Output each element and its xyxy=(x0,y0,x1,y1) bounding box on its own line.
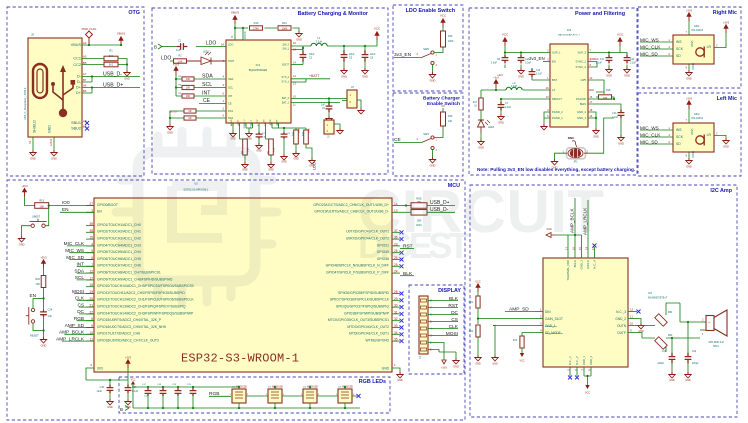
ground JP1 xyxy=(551,159,557,165)
wire SUP_2 SYNC right xyxy=(588,46,620,67)
IC3 amplifier MAX98357 xyxy=(543,258,628,367)
wire LED D4 vdd gnd xyxy=(344,387,346,408)
svg-text:WS2812B: WS2812B xyxy=(236,385,247,388)
svg-text:LR: LR xyxy=(707,45,712,49)
wire LED D2 vdd gnd xyxy=(274,387,276,408)
svg-text:J5: J5 xyxy=(31,33,34,37)
svg-text:STAT: STAT xyxy=(228,59,235,63)
wire switch bottom to gnd xyxy=(432,65,434,72)
svg-text:VCC: VCC xyxy=(374,26,381,30)
svg-text:LED1: LED1 xyxy=(203,51,210,54)
wire LED D3 vdd gnd xyxy=(309,387,311,408)
svg-text:BST: BST xyxy=(552,78,558,82)
ground C4 xyxy=(326,116,332,122)
wire SDA net xyxy=(194,78,226,80)
ground C9 xyxy=(281,154,287,160)
svg-text:N.C._1: N.C._1 xyxy=(568,356,572,365)
microphone MK2 ICS-43434 xyxy=(673,123,714,152)
wire rgb top rail xyxy=(133,385,238,389)
resistor R9 10K xyxy=(182,94,194,98)
svg-text:10uF: 10uF xyxy=(97,390,103,393)
resistor R10 274K xyxy=(250,26,263,30)
svg-text:FB1: FB1 xyxy=(668,311,673,314)
wire DS rail to gnd xyxy=(170,111,184,124)
svg-text:SD: SD xyxy=(676,142,681,146)
power +3V3 at caps xyxy=(127,364,129,369)
svg-text:SYS_1: SYS_1 xyxy=(282,81,290,84)
wire VCC to SUP_1 xyxy=(505,46,550,53)
capacitor C13 2.2uF xyxy=(618,110,625,119)
svg-text:3v3_EN: 3v3_EN xyxy=(529,56,545,61)
svg-text:GND: GND xyxy=(723,144,729,148)
ground EN cluster xyxy=(40,337,46,343)
wire INT net xyxy=(194,95,226,97)
svg-text:GND: GND xyxy=(30,156,36,160)
ground R11 xyxy=(293,151,299,157)
wire pullup rail xyxy=(176,75,182,96)
svg-text:+3V3: +3V3 xyxy=(21,184,28,188)
svg-text:SPK1: SPK1 xyxy=(713,346,720,348)
svg-text:+3V3: +3V3 xyxy=(125,356,132,360)
svg-text:PGND_1: PGND_1 xyxy=(552,116,563,120)
capacitor C15 10uF xyxy=(107,385,114,394)
svg-text:10K: 10K xyxy=(186,87,191,90)
ground R12 xyxy=(296,31,302,37)
svg-text:3V3: 3V3 xyxy=(97,367,103,371)
wire BOOT to C3 xyxy=(291,64,303,66)
svg-text:LDO Enable Switch: LDO Enable Switch xyxy=(406,8,455,14)
power +3V3 boot pullup xyxy=(24,192,26,197)
svg-text:CS: CS xyxy=(451,317,458,323)
svg-text:D+: D+ xyxy=(76,91,82,95)
LED D4 WS2812B xyxy=(338,389,352,403)
svg-text:VDD: VDD xyxy=(690,41,694,48)
resistor R22 xyxy=(476,325,480,337)
svg-text:R17: R17 xyxy=(473,102,478,104)
capacitor C19 1uF xyxy=(175,388,182,396)
svg-text:0.1uF: 0.1uF xyxy=(536,74,542,76)
svg-text:GPIO38/FSPIWP/SUBSPIWP: GPIO38/FSPIWP/SUBSPIWP xyxy=(344,311,390,315)
svg-text:SBU1: SBU1 xyxy=(71,121,81,125)
wire C24 to gnd xyxy=(43,316,45,338)
svg-text:GPIO8/TOUCH8/ADC1_CH7/SUBSPICS: GPIO8/TOUCH8/ADC1_CH7/SUBSPICS1 xyxy=(97,271,161,275)
power VCC amp vdd xyxy=(587,381,589,385)
svg-text:CLK: CLK xyxy=(75,296,85,301)
svg-text:GP5: GP5 xyxy=(581,78,587,82)
wire boot button right to junction xyxy=(45,206,48,226)
svg-text:CE: CE xyxy=(203,98,211,104)
svg-text:CLK: CLK xyxy=(449,324,459,330)
power symbol VCC left xyxy=(504,42,506,47)
svg-text:DS2: DS2 xyxy=(228,116,234,120)
resistor R8 10K xyxy=(182,85,194,89)
svg-text:DNC: DNC xyxy=(568,136,575,140)
svg-text:200K: 200K xyxy=(309,128,311,133)
svg-text:C21: C21 xyxy=(662,351,667,353)
svg-text:1K: 1K xyxy=(474,106,477,108)
svg-text:A1B12: A1B12 xyxy=(50,138,53,146)
switch SW3 xyxy=(431,136,434,139)
wire CC2 to R2 xyxy=(82,64,104,66)
pin 4 SCK wire MK2 xyxy=(640,136,673,138)
wire CE net xyxy=(199,103,226,105)
svg-text:SDA: SDA xyxy=(74,268,85,273)
svg-text:GND: GND xyxy=(293,158,299,161)
svg-text:GND: GND xyxy=(593,134,599,138)
wire USB_D nets xyxy=(427,206,455,213)
ground C13 xyxy=(618,135,624,141)
svg-text:VCC: VCC xyxy=(440,13,447,17)
power VCC amp left xyxy=(477,288,479,293)
section box OTG xyxy=(7,7,144,176)
svg-text:2.2uF: 2.2uF xyxy=(505,106,512,109)
ground GND pins IC2 xyxy=(593,128,599,134)
ground LR MK2 xyxy=(723,138,729,144)
svg-text:SW3: SW3 xyxy=(423,132,429,136)
svg-text:GND_1: GND_1 xyxy=(545,324,556,328)
no-connect SBU2 xyxy=(85,127,89,131)
ground R13 area xyxy=(309,158,315,164)
svg-text:GND: GND xyxy=(686,76,692,80)
svg-text:SD: SD xyxy=(676,54,681,58)
svg-text:SCK: SCK xyxy=(676,135,684,139)
svg-text:MK2: MK2 xyxy=(694,113,700,116)
wire J1 to gnd xyxy=(334,124,340,128)
capacitor C16 3.3uF xyxy=(518,55,525,64)
svg-text:SHIELD: SHIELD xyxy=(33,120,37,133)
svg-text:N.C._4: N.C._4 xyxy=(593,260,597,269)
svg-text:CE: CE xyxy=(228,102,232,106)
svg-text:A4: A4 xyxy=(83,41,87,45)
svg-text:C13: C13 xyxy=(612,112,617,115)
connector J5 USB-C receptacle body xyxy=(28,38,82,137)
wire display power pins xyxy=(434,343,456,357)
resistor R2 1.8K xyxy=(174,59,187,63)
svg-text:SBU2: SBU2 xyxy=(71,127,81,131)
power +3V3 display xyxy=(443,356,445,360)
svg-text:GND_1: GND_1 xyxy=(577,116,586,120)
section box I2C Amp xyxy=(470,185,737,417)
inductor L2 1.0uH xyxy=(506,87,522,90)
svg-text:+3V3: +3V3 xyxy=(173,63,180,67)
wire vdd MK1 xyxy=(688,21,690,35)
svg-text:BLK: BLK xyxy=(403,271,413,277)
LED D3 WS2812B xyxy=(303,389,317,403)
resistor R11 100K xyxy=(294,130,299,144)
svg-text:OUTP: OUTP xyxy=(617,331,626,335)
svg-text:GPIO47/SPICLK_P/SUBSPICLK_P_DI: GPIO47/SPICLK_P/SUBSPICLK_P_DIFF xyxy=(326,271,389,275)
wire boot button left to gnd xyxy=(22,226,31,236)
wire vdd MK2 xyxy=(688,109,690,123)
wire r22 gnd xyxy=(477,337,479,355)
svg-text:FB2: FB2 xyxy=(668,334,673,337)
wire RGB data xyxy=(209,395,231,397)
svg-text:SPIIO6/GPIO35/FSPID/SUBSPID: SPIIO6/GPIO35/FSPID/SUBSPID xyxy=(338,291,389,295)
svg-text:GND: GND xyxy=(453,366,459,369)
wire D+ pair xyxy=(82,88,140,94)
svg-text:SCL: SCL xyxy=(75,275,85,280)
svg-text:VCC: VCC xyxy=(519,360,524,363)
svg-text:0R: 0R xyxy=(188,110,191,113)
wire bclk lrclk nets xyxy=(556,198,588,247)
svg-text:BAT_2: BAT_2 xyxy=(282,97,290,100)
wire switch common 3v3_EN xyxy=(394,57,422,59)
svg-text:GND: GND xyxy=(167,130,173,134)
svg-text:GND: GND xyxy=(475,363,481,366)
resistor R7 0R xyxy=(184,116,196,120)
svg-text:B: B xyxy=(120,407,123,412)
svg-text:GND: GND xyxy=(362,74,368,78)
wire LED D2 data xyxy=(282,395,303,397)
wire gnd MK2 xyxy=(688,152,690,158)
power symbol VBUS xyxy=(120,41,122,46)
svg-text:SDA: SDA xyxy=(228,77,234,81)
section box Right Mic xyxy=(638,7,741,88)
wire R19 to IO0 pin xyxy=(49,205,94,207)
svg-text:Right Mic: Right Mic xyxy=(713,10,737,16)
svg-text:Note: Pulling 3v3_EN low disab: Note: Pulling 3v3_EN low disables everyt… xyxy=(477,167,635,172)
svg-text:VCC: VCC xyxy=(502,32,509,36)
svg-text:R19: R19 xyxy=(39,199,44,203)
svg-text:GND: GND xyxy=(242,169,248,172)
svg-text:R12: R12 xyxy=(282,21,287,25)
svg-text:GND: GND xyxy=(51,156,57,160)
svg-text:0.1uF: 0.1uF xyxy=(596,62,603,65)
capacitor C11 0.1uF xyxy=(606,55,613,64)
section box Battery Charging & Monitor xyxy=(152,8,388,174)
wire fb outputs to speaker xyxy=(666,303,700,352)
wire R16 to switch sw3 xyxy=(435,126,444,138)
svg-text:GND: GND xyxy=(518,74,524,78)
ground AGND xyxy=(232,128,234,131)
wire switch common CE xyxy=(394,142,422,144)
svg-text:DC: DC xyxy=(77,309,84,314)
ground shield xyxy=(30,150,36,156)
svg-text:GND: GND xyxy=(341,74,347,78)
svg-text:SYS_2: SYS_2 xyxy=(282,76,290,79)
svg-text:SCL: SCL xyxy=(202,82,212,88)
USB-C pill glyph xyxy=(33,64,47,98)
svg-text:R22: R22 xyxy=(469,331,474,333)
ground C14 xyxy=(125,399,131,405)
svg-text:GPIO18/U1RXD/ADC2_CH7/CLK_OUT3: GPIO18/U1RXD/ADC2_CH7/CLK_OUT3 xyxy=(97,339,159,343)
power VCC rgb xyxy=(132,385,134,388)
ground boot button xyxy=(18,236,24,242)
power +3V3 LR MK1 xyxy=(725,29,727,34)
svg-text:SUP_1: SUP_1 xyxy=(552,51,561,55)
svg-text:IC2: IC2 xyxy=(567,28,572,32)
svg-text:MIC_SD: MIC_SD xyxy=(640,139,658,144)
svg-text:24: 24 xyxy=(221,42,225,46)
svg-text:GND: GND xyxy=(256,150,262,153)
svg-text:3v3_EN: 3v3_EN xyxy=(394,52,412,58)
svg-text:A6: A6 xyxy=(83,84,87,88)
svg-text:LED2: LED2 xyxy=(488,126,495,129)
svg-text:3.3uF: 3.3uF xyxy=(525,62,532,65)
svg-text:EN: EN xyxy=(552,60,556,64)
svg-text:220pF: 220pF xyxy=(657,363,664,365)
svg-text:100K: 100K xyxy=(282,27,288,30)
svg-text:BOOT: BOOT xyxy=(282,64,289,67)
ground PGND pins xyxy=(246,128,253,131)
svg-text:GND: GND xyxy=(618,141,624,145)
capacitor C10 0.1uF BST xyxy=(529,69,536,78)
svg-text:MIC_CLK: MIC_CLK xyxy=(64,241,85,246)
svg-text:MAX98357ETE+T: MAX98357ETE+T xyxy=(648,297,668,300)
svg-text:10K: 10K xyxy=(448,120,453,123)
resistor R3 ISET 1.4K xyxy=(239,128,241,139)
connector J1 battery alt xyxy=(324,120,334,134)
svg-text:0R: 0R xyxy=(188,117,191,120)
wire 3V3 pin to caps xyxy=(86,368,128,385)
svg-text:IO0: IO0 xyxy=(62,200,70,205)
resistor R6 10K xyxy=(182,77,194,81)
svg-text:1uF: 1uF xyxy=(48,314,53,318)
svg-text:R21: R21 xyxy=(469,302,474,304)
svg-text:WS2812B: WS2812B xyxy=(307,385,318,388)
svg-text:SMT-0840-S-R: SMT-0840-S-R xyxy=(708,342,724,344)
svg-text:GND: GND xyxy=(397,379,403,382)
section box Power and Filtering xyxy=(469,8,637,175)
wire JP1 left gnd xyxy=(555,153,568,159)
power +3V3 at L2 xyxy=(495,84,497,89)
svg-text:GND: GND xyxy=(606,73,612,77)
svg-text:VCC: VCC xyxy=(617,32,624,36)
svg-text:SDA: SDA xyxy=(202,73,213,79)
ferrite bead FB2 xyxy=(655,337,667,349)
svg-text:GPIO0/BOOT: GPIO0/BOOT xyxy=(97,203,118,207)
svg-text:INT: INT xyxy=(76,262,84,267)
svg-text:C10: C10 xyxy=(536,70,541,72)
ground ESP32 xyxy=(397,372,403,378)
svg-text:MIC_SD: MIC_SD xyxy=(640,51,658,56)
svg-text:SD_MODE: SD_MODE xyxy=(545,331,561,335)
svg-text:SCK: SCK xyxy=(676,47,684,51)
section box DISPLAY xyxy=(409,285,464,374)
svg-text:CE: CE xyxy=(394,137,401,143)
svg-text:ICS-43434: ICS-43434 xyxy=(691,117,704,120)
ground gnd1 amp xyxy=(492,355,498,361)
svg-text:BQ24250RGER: BQ24250RGER xyxy=(249,68,268,72)
LED LED1 xyxy=(187,57,226,65)
wire VBUS to IC top and resistor divider xyxy=(235,24,299,40)
button SW RESET xyxy=(32,298,34,308)
svg-text:10K: 10K xyxy=(186,95,191,98)
USB trident glyph xyxy=(53,72,73,112)
svg-text:USB_C_Receptacle_USB2.0: USB_C_Receptacle_USB2.0 xyxy=(24,87,27,120)
svg-text:ILIM: ILIM xyxy=(263,119,265,123)
svg-text:OUTN: OUTN xyxy=(617,324,627,328)
svg-text:2.2uF: 2.2uF xyxy=(612,116,619,119)
svg-text:GPIO16/U0CTS/ADC2_CH5/XTAL_32K: GPIO16/U0CTS/ADC2_CH5/XTAL_32K_NH5 xyxy=(97,325,166,329)
svg-text:WS2812B: WS2812B xyxy=(342,385,353,388)
svg-text:N.C._3: N.C._3 xyxy=(616,310,626,314)
resistor R5 ILIM 2.67K xyxy=(265,128,267,139)
svg-text:EN: EN xyxy=(30,293,37,298)
svg-text:Battery Charging & Monitor: Battery Charging & Monitor xyxy=(298,11,369,17)
resistor R21 xyxy=(476,296,480,308)
svg-text:EN: EN xyxy=(62,207,69,212)
svg-text:VCC: VCC xyxy=(475,280,481,284)
svg-text:GPIO13/TOUCH13/ADC2_CH2/FSPIQ/: GPIO13/TOUCH13/ADC2_CH2/FSPIQ/FSPIIO7/SU… xyxy=(97,305,186,309)
LED D2 WS2812B xyxy=(268,389,282,403)
LED LED2 xyxy=(480,110,482,120)
resistor R12 100K xyxy=(278,26,291,30)
svg-text:IN: IN xyxy=(231,35,234,38)
svg-text:GND: GND xyxy=(669,379,675,382)
svg-text:INT: INT xyxy=(202,90,211,96)
svg-text:GPIO14/TOUCH14/ADC2_CH3/FSPIWP: GPIO14/TOUCH14/ADC2_CH3/FSPIWP/FSPIDQS/S… xyxy=(97,311,194,315)
svg-text:+3V3: +3V3 xyxy=(686,97,693,101)
svg-text:GND: GND xyxy=(48,125,52,133)
svg-text:LR: LR xyxy=(707,133,712,137)
svg-text:100K: 100K xyxy=(448,40,454,43)
wire R15 to switch xyxy=(435,27,444,53)
svg-text:R23: R23 xyxy=(513,340,518,342)
capacitor C20 1uF xyxy=(190,388,197,396)
section box LDO Enable Switch xyxy=(393,5,463,91)
svg-text:LX: LX xyxy=(552,88,555,92)
svg-text:C15: C15 xyxy=(100,386,105,389)
svg-text:WS: WS xyxy=(676,40,682,44)
power symbol VBUS battery xyxy=(234,20,236,25)
svg-text:RST: RST xyxy=(448,303,458,309)
wire outn to fb1 xyxy=(637,303,680,326)
capacitor C18 1uF xyxy=(160,388,167,396)
wire boot pullup xyxy=(25,197,35,206)
svg-text:GND: GND xyxy=(107,406,113,409)
svg-text:+3v3: +3v3 xyxy=(493,77,499,80)
svg-text:5K1: 5K1 xyxy=(109,55,114,58)
capacitor C14 0.1uF xyxy=(125,385,132,394)
ground display xyxy=(455,356,457,358)
svg-text:INT: INT xyxy=(228,94,233,98)
svg-text:A5: A5 xyxy=(83,55,87,59)
wire amp gain divider xyxy=(477,292,479,324)
svg-text:CC1: CC1 xyxy=(73,57,81,61)
resistor R17 xyxy=(479,98,483,110)
svg-text:DIN: DIN xyxy=(545,310,551,314)
wire gnd MK1 xyxy=(688,64,690,70)
capacitor C21 220pF xyxy=(669,353,676,364)
svg-text:AMP_LRCLK: AMP_LRCLK xyxy=(56,336,85,341)
svg-text:VCC: VCC xyxy=(131,379,136,381)
svg-text:DS1: DS1 xyxy=(228,109,234,113)
svg-text:10MHC: 10MHC xyxy=(590,57,599,61)
svg-text:VBUS: VBUS xyxy=(231,10,239,14)
svg-text:SW_2: SW_2 xyxy=(282,43,289,46)
svg-text:LDO: LDO xyxy=(161,55,171,61)
capacitor C8 3.3uF xyxy=(502,55,509,64)
svg-text:+3V3: +3V3 xyxy=(40,256,47,260)
wire sw3 to gnd xyxy=(432,150,434,157)
svg-text:GND: GND xyxy=(430,163,436,167)
svg-text:VCC: VCC xyxy=(585,392,590,395)
svg-text:MIC_WS: MIC_WS xyxy=(65,248,84,253)
svg-text:SCL: SCL xyxy=(228,86,234,90)
svg-text:R10: R10 xyxy=(254,21,259,25)
svg-text:+BATT: +BATT xyxy=(309,74,319,78)
section box RGB LEDs xyxy=(119,377,390,413)
ground PGND xyxy=(541,124,547,130)
resistor R20 10K EN xyxy=(43,268,45,276)
svg-text:MK1: MK1 xyxy=(694,25,700,28)
svg-text:BLK: BLK xyxy=(449,296,459,302)
svg-text:GND: GND xyxy=(589,89,595,92)
wire CC1 to R1 xyxy=(82,58,104,60)
wire FB OUT xyxy=(501,99,550,102)
power +3V3 MK2 vdd xyxy=(688,105,690,110)
